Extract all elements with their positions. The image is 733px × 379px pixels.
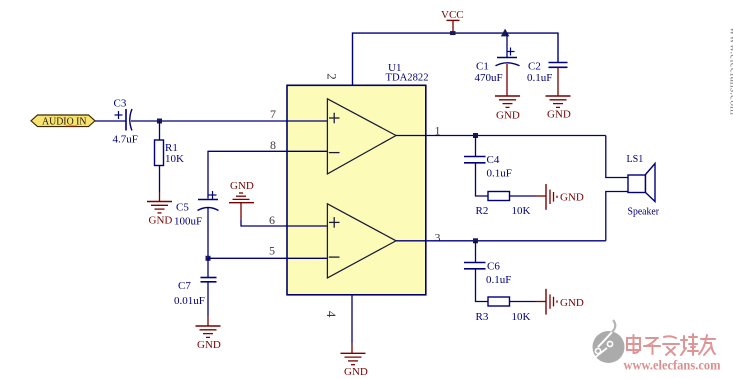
svg-text:4: 4 <box>324 311 339 318</box>
svg-text:C4: C4 <box>487 154 500 166</box>
wire pin1 output <box>396 135 606 137</box>
speaker LS1 <box>627 153 660 218</box>
svg-text:C7: C7 <box>178 280 191 292</box>
wire C1 stem <box>506 33 508 57</box>
wire C6 to R3 <box>476 269 489 302</box>
op-amp A top triangle <box>327 99 396 174</box>
node junction C1/rail <box>501 29 510 37</box>
svg-text:10K: 10K <box>512 205 531 217</box>
wire pin4 to ground <box>351 295 353 353</box>
svg-text:Speaker: Speaker <box>628 206 660 218</box>
watermark text dianzifashaoyou <box>627 334 715 355</box>
port AUDIO_IN <box>31 115 95 128</box>
ground GND inverted at pin6 <box>229 180 254 220</box>
pin number 4 rotated <box>324 311 339 318</box>
wire port to C3 <box>95 120 126 122</box>
svg-text:VCC: VCC <box>441 9 464 21</box>
svg-text:2: 2 <box>324 73 339 80</box>
node junction C4 <box>473 133 478 138</box>
svg-text:6: 6 <box>269 213 275 227</box>
svg-text:0.01uF: 0.01uF <box>174 295 205 307</box>
svg-text:www.elecfans.com: www.elecfans.com <box>728 27 733 116</box>
svg-text:4.7uF: 4.7uF <box>113 134 138 146</box>
resistor R3 10K <box>476 297 531 323</box>
wire C5 to junction <box>207 208 209 258</box>
svg-text:C3: C3 <box>114 98 127 110</box>
svg-text:C1: C1 <box>476 61 489 73</box>
svg-text:10K: 10K <box>512 311 531 323</box>
capacitor C2 0.1uF <box>527 61 568 85</box>
svg-text:R2: R2 <box>476 205 489 217</box>
wire pin3 output <box>396 240 606 242</box>
wire R2 to ground <box>510 195 546 197</box>
wire C2 to ground (maroon lead) <box>557 67 559 95</box>
op-amp B bottom triangle <box>327 204 396 278</box>
capacitor C7 0.01uF <box>174 278 217 308</box>
svg-text:GND: GND <box>547 109 571 121</box>
pin number 8 <box>270 138 276 152</box>
svg-text:0.1uF: 0.1uF <box>487 168 512 180</box>
svg-text:7: 7 <box>270 107 276 121</box>
ground GND under R1 <box>147 202 172 227</box>
wire pin6 <box>241 220 327 226</box>
resistor R1 10K <box>155 140 185 166</box>
power rail VCC top <box>353 33 559 85</box>
wire C3 to IC pin7 <box>131 120 327 122</box>
node junction C6 <box>473 238 478 243</box>
watermark logo emblem bottom right <box>593 320 625 363</box>
node junction C5/C7/pin5 <box>206 256 211 261</box>
wire junction to C4 <box>475 136 477 157</box>
svg-text:8: 8 <box>270 138 276 152</box>
svg-text:GND: GND <box>197 339 221 351</box>
svg-text:www.elecfans.com: www.elecfans.com <box>624 359 721 374</box>
pin number 7 <box>270 107 276 121</box>
wire pin3 branch up to speaker <box>606 192 628 241</box>
svg-text:GND: GND <box>560 297 584 309</box>
wire junction to IC pin5 <box>208 257 327 259</box>
svg-text:100uF: 100uF <box>174 216 202 228</box>
pin number 1 <box>435 124 441 138</box>
watermark vertical www.elecfans.com top right <box>728 27 733 116</box>
pin number 5 <box>269 244 275 258</box>
svg-text:TDA2822: TDA2822 <box>386 72 429 84</box>
pin number 2 rotated <box>324 73 339 80</box>
svg-text:470uF: 470uF <box>475 72 503 84</box>
svg-text:C6: C6 <box>487 261 500 273</box>
svg-text:GND: GND <box>496 110 520 122</box>
svg-text:GND: GND <box>560 192 584 204</box>
wire pin8 to C5 riser <box>208 151 327 198</box>
capacitor C3 4.7uF polarized <box>113 98 138 146</box>
capacitor C6 0.1uF <box>464 261 511 287</box>
watermark url bottom right <box>624 359 721 374</box>
power port VCC <box>441 9 464 35</box>
wire R3 to ground <box>510 301 546 303</box>
svg-text:10K: 10K <box>165 153 184 165</box>
wire pin1 branch down to speaker <box>606 136 628 178</box>
capacitor C5 100uF polarized <box>174 191 219 228</box>
svg-text:LS1: LS1 <box>627 153 644 165</box>
svg-text:3: 3 <box>435 231 441 245</box>
resistor R2 10K <box>476 192 531 218</box>
ground GND under C1 <box>495 96 520 122</box>
wire junction to C7 <box>207 258 209 277</box>
ground GND under pin4 <box>341 353 368 378</box>
ground GND right of R3 (rotated) <box>546 289 584 315</box>
svg-text:C2: C2 <box>528 61 541 73</box>
svg-text:GND: GND <box>230 180 254 192</box>
svg-text:AUDIO IN: AUDIO IN <box>42 117 87 128</box>
pin number 6 <box>269 213 275 227</box>
ground GND under C7 <box>196 326 221 351</box>
capacitor C4 0.1uF <box>464 154 512 180</box>
wire C1 to ground (maroon lead) <box>506 64 508 96</box>
svg-text:R3: R3 <box>476 311 489 323</box>
svg-text:GND: GND <box>344 366 368 378</box>
node junction R1 <box>157 119 162 124</box>
svg-text:C5: C5 <box>176 202 189 214</box>
wire C4 to R2 <box>476 163 489 196</box>
wire junction to R1 <box>159 121 161 140</box>
svg-text:GND: GND <box>149 215 173 227</box>
capacitor C1 470uF polarized <box>475 48 520 85</box>
IC U1 TDA2822 body <box>287 62 429 295</box>
wire R1 to ground <box>159 166 161 202</box>
wire C7 to ground <box>207 283 209 327</box>
svg-text:5: 5 <box>269 244 275 258</box>
svg-text:0.1uF: 0.1uF <box>486 274 511 286</box>
wire junction to C6 <box>475 241 477 263</box>
ground GND under C2 <box>546 96 571 121</box>
ground GND right of R2 (rotated) <box>546 184 584 210</box>
pin number 3 <box>435 231 441 245</box>
svg-text:0.1uF: 0.1uF <box>527 72 552 84</box>
